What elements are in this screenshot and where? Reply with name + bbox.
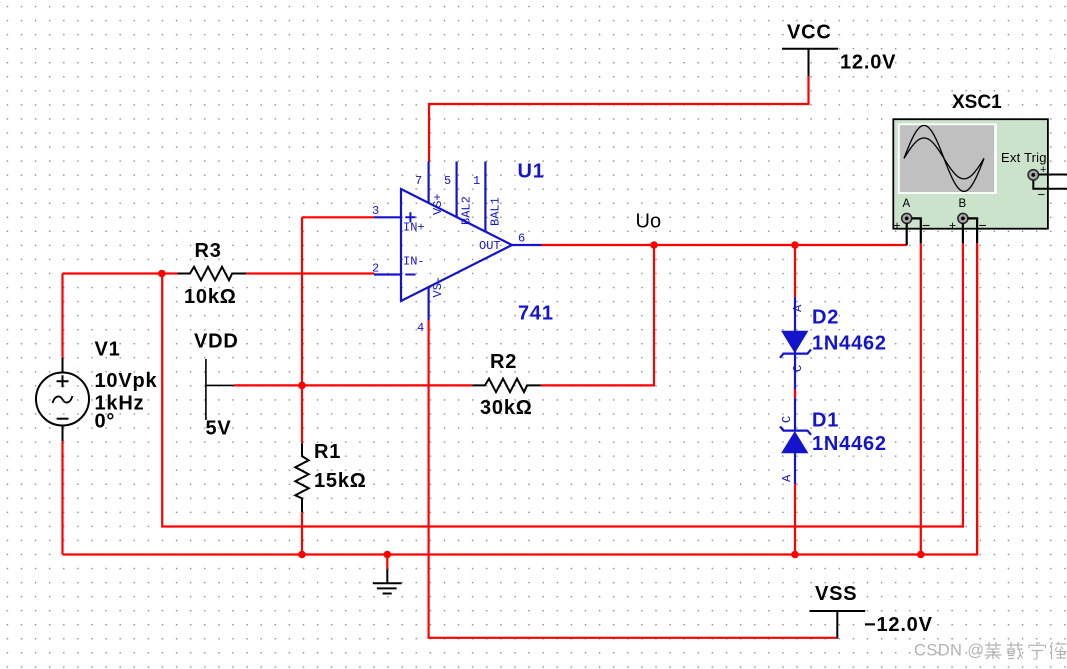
wire scope B+ stub [962, 223, 964, 243]
svg-text:B: B [959, 198, 967, 210]
wire output Uo [542, 244, 908, 246]
wire scope A+ to Uo [906, 223, 908, 245]
wire diode branch lower [794, 484, 796, 554]
wire diode branch upper [794, 245, 796, 298]
source V1 [36, 358, 89, 441]
diode D1 lead [794, 398, 796, 431]
U1 minus mark [405, 274, 415, 276]
U1 pin 5 lead [456, 162, 458, 218]
wire R3 to pin 2 [246, 272, 374, 274]
junction feedback on Uo [650, 241, 658, 249]
wire ground net bottom [63, 243, 978, 555]
U1 triangle body [401, 189, 512, 301]
wire VCC to op-amp pin 7 [429, 76, 809, 162]
wire scope B- hook [968, 218, 978, 243]
svg-text:R2: R2 [490, 351, 517, 373]
wire V1 top to R3 node [63, 274, 162, 358]
svg-text:VDD: VDD [194, 331, 239, 353]
wire VSS net from pin 4 [429, 320, 837, 638]
svg-text:VS-: VS- [431, 276, 445, 298]
svg-text:10Vpk: 10Vpk [95, 370, 158, 392]
U1 pin 7 lead [428, 162, 430, 204]
svg-text:A: A [780, 474, 794, 482]
svg-text:−: − [979, 217, 987, 233]
wire scope B- drop [976, 243, 978, 555]
svg-text:−: − [922, 217, 930, 233]
svg-text:6: 6 [518, 232, 525, 246]
svg-text:BAL2: BAL2 [460, 196, 474, 225]
svg-text:5V: 5V [206, 418, 232, 440]
svg-text:12.0V: 12.0V [840, 52, 896, 74]
svg-text:D1: D1 [812, 410, 839, 432]
svg-text:741: 741 [518, 303, 554, 325]
power symbol VDD [206, 359, 234, 420]
svg-text:R3: R3 [195, 240, 222, 262]
wire between diodes [794, 354, 796, 399]
junction VDD node [298, 382, 306, 390]
svg-text:Ext Trig: Ext Trig [1001, 150, 1047, 165]
resistor R3 [162, 267, 246, 280]
svg-text:5: 5 [444, 174, 451, 188]
svg-text:VSS: VSS [815, 583, 857, 605]
svg-text:7: 7 [415, 174, 422, 188]
svg-text:10kΩ: 10kΩ [184, 286, 237, 308]
junction R3 left node [158, 270, 166, 278]
svg-text:A: A [903, 198, 911, 210]
wire R2 right to feedback riser [541, 245, 654, 385]
power symbol VCC [782, 22, 838, 77]
wire V1 bottom to ground net [61, 441, 63, 554]
svg-text:D2: D2 [812, 307, 839, 329]
junction diode branch on Uo [791, 241, 799, 249]
diode D2 [780, 331, 811, 358]
svg-text:U1: U1 [518, 161, 545, 183]
diode D2 lead [794, 298, 796, 354]
svg-text:0°: 0° [95, 411, 116, 433]
svg-text:BAL1: BAL1 [489, 197, 503, 226]
svg-text:A: A [791, 304, 805, 312]
svg-text:15kΩ: 15kΩ [314, 470, 367, 492]
wire B channel net (signal input to scope B) [162, 243, 963, 527]
svg-text:4: 4 [417, 321, 424, 335]
diode D1 [780, 426, 811, 484]
wire node3 vertical to VDD junction [301, 217, 303, 385]
wire scope A- drop [920, 243, 922, 555]
svg-text:VS+: VS+ [431, 193, 445, 215]
op-amp U1 [372, 162, 542, 336]
svg-text:IN+: IN+ [403, 221, 425, 235]
svg-text:1: 1 [473, 174, 480, 188]
U1 pin 2 lead [374, 273, 402, 275]
power symbol VSS [810, 611, 866, 639]
svg-text:R1: R1 [314, 441, 341, 463]
wire ext trig stubs [1033, 175, 1067, 189]
svg-text:1N4462: 1N4462 [812, 333, 887, 355]
svg-text:OUT: OUT [479, 239, 501, 253]
ground [373, 555, 402, 594]
U1 pin 1 lead [484, 162, 486, 233]
svg-text:XSC1: XSC1 [952, 92, 1002, 113]
svg-text:V1: V1 [95, 339, 121, 361]
svg-text:VCC: VCC [787, 22, 832, 44]
wire scope A- hook [912, 218, 921, 243]
svg-text:−12.0V: −12.0V [864, 614, 933, 636]
wire node3 to pin 3 [302, 216, 374, 218]
svg-text:+: + [894, 219, 901, 233]
svg-text:Uo: Uo [636, 211, 662, 233]
U1 plus mark [405, 212, 415, 222]
svg-text:CSDN @: CSDN @ [914, 642, 985, 660]
oscilloscope XSC1 [893, 119, 1048, 233]
U1 output pin 6 lead [511, 244, 542, 246]
svg-text:1N4462: 1N4462 [812, 433, 887, 455]
svg-text:C: C [780, 416, 794, 423]
U1 pin 3 lead [374, 216, 402, 218]
U1 pin 4 lead [428, 287, 430, 320]
junction ground stem [384, 551, 392, 559]
junction diode bottom [791, 551, 799, 559]
junction scope A- [917, 551, 925, 559]
svg-text:30kΩ: 30kΩ [480, 397, 533, 419]
svg-text:+: + [949, 219, 956, 233]
svg-text:C: C [791, 365, 805, 372]
resistor R1 [295, 385, 308, 554]
watermark CSDN [914, 642, 1067, 660]
svg-text:3: 3 [372, 204, 379, 218]
svg-text:IN-: IN- [403, 255, 425, 269]
wire VDD to R2 left [234, 384, 472, 386]
junction R1 bottom [298, 551, 306, 559]
resistor R2 [472, 379, 541, 392]
